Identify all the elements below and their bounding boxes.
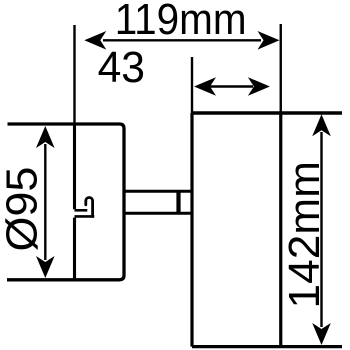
119mm arrowhead right — [258, 31, 280, 50]
Ø95 arrowhead bottom — [36, 256, 55, 278]
Ø95 dimension line — [44, 144, 46, 260]
swivel arm bottom edge — [124, 212, 192, 215]
119mm arrowhead left — [84, 31, 106, 50]
svg-text:142mm: 142mm — [281, 161, 329, 309]
119mm left extension line — [73, 25, 75, 124]
keyhole slot stub — [75, 209, 88, 212]
43 dimension line — [210, 85, 253, 87]
142mm arrowhead top — [312, 114, 331, 136]
142mm arrowhead bottom — [312, 323, 331, 345]
wall plate bottom edge + Ø95 bottom extension line — [7, 278, 120, 281]
svg-text:43: 43 — [98, 44, 145, 92]
119mm right extension line — [280, 24, 282, 113]
swivel arm joint divider — [176, 191, 180, 213]
keyhole hook detail — [86, 198, 93, 217]
142mm dimension line — [320, 132, 322, 327]
cylinder head top edge + 142mm top extension line — [192, 111, 342, 114]
Ø95 arrowhead top — [36, 126, 55, 148]
keyhole slot lower edge — [75, 215, 95, 218]
43 arrowhead left — [194, 77, 216, 96]
wall plate (side view) top edge + Ø95 top extension line — [8, 124, 125, 129]
43 left extension line — [191, 57, 193, 113]
swivel arm top edge — [124, 190, 192, 193]
cylinder head bottom edge + 142mm bottom extension line — [192, 345, 342, 348]
119mm dimension line — [103, 39, 261, 41]
svg-text:Ø95: Ø95 — [0, 167, 47, 252]
wall plate left (wall-side) edge, upper segment above keyhole notch — [73, 124, 76, 209]
43 arrowhead right — [248, 77, 270, 96]
svg-text:119mm: 119mm — [115, 0, 247, 44]
cylinder head left edge — [190, 113, 193, 347]
wall plate right edge — [120, 129, 125, 280]
cylinder head right edge — [279, 113, 282, 347]
wall plate left edge, lower segment below keyhole notch — [73, 218, 76, 280]
